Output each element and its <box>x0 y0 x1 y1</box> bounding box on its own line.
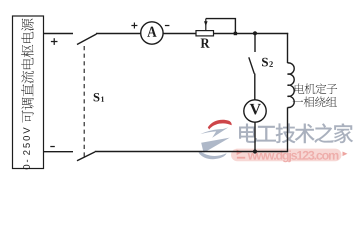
wire: bottom rail junction to winding <box>255 151 288 153</box>
wire: voltmeter to bottom rail <box>254 122 256 151</box>
wire: ammeter to rheostat R <box>163 33 196 35</box>
watermark url trailing mark <box>343 152 348 157</box>
voltmeter V circle <box>244 100 266 122</box>
wire: top corner down to winding <box>287 33 289 63</box>
switch S1 bottom blade <box>77 152 95 161</box>
wire: junction down to S2 <box>254 34 256 53</box>
power supply box (0-250V adjustable DC armature source) <box>13 16 44 169</box>
wire: winding bottom lead <box>287 107 289 151</box>
label: A (ammeter) <box>147 27 156 37</box>
wire: S2 to voltmeter <box>254 74 256 100</box>
label: R <box>201 39 210 48</box>
switch S2 blade <box>249 57 255 73</box>
watermark logo red swoosh <box>208 120 232 130</box>
wire: bottom rail S1 to V junction <box>95 151 255 153</box>
watermark logo lightning bolt <box>200 127 228 137</box>
rheostat wiper arm with arrow <box>205 19 207 31</box>
label: winding text line2 一相绕组 <box>293 97 337 108</box>
label: - polarity at source output <box>50 146 55 147</box>
label: S1 <box>94 93 100 101</box>
watermark url pink band <box>231 149 342 162</box>
switch S1 top blade <box>77 34 97 45</box>
label: power supply vertical text 0-250V可调直流电枢电源 <box>21 19 34 170</box>
watermark url decorations <box>237 150 243 156</box>
node: S2 branch junction dot <box>253 31 257 35</box>
label: + at ammeter left <box>131 23 137 29</box>
wire: box to S1 top contact <box>44 33 74 35</box>
watermark logo bottom swoosh <box>199 151 227 159</box>
wire: box to S1 bottom contact <box>44 151 74 153</box>
label: + polarity at source output <box>51 38 58 45</box>
wire: R to S2 branch node <box>214 33 256 35</box>
junction: wiper link joins main rail <box>234 32 237 35</box>
wire: wiper link to right terminal <box>206 19 236 34</box>
ammeter A circle <box>141 22 163 44</box>
label: V (voltmeter) <box>250 104 261 115</box>
node: bottom junction dot at voltmeter <box>253 149 257 153</box>
wire: S1 to ammeter <box>96 33 141 35</box>
wire: node to winding (top right) <box>255 33 288 35</box>
resistor R body (rheostat) <box>196 31 214 36</box>
inductor: motor stator winding coil <box>288 63 295 108</box>
label: S2 <box>262 58 268 67</box>
label: winding text line1 电机定子 <box>295 83 337 94</box>
dashed gang link of switch S1 <box>83 46 85 157</box>
watermark text 电工技术之家 <box>239 123 353 143</box>
watermark url www.dgjs123.com <box>248 151 339 163</box>
label: - at ammeter right <box>165 25 170 26</box>
